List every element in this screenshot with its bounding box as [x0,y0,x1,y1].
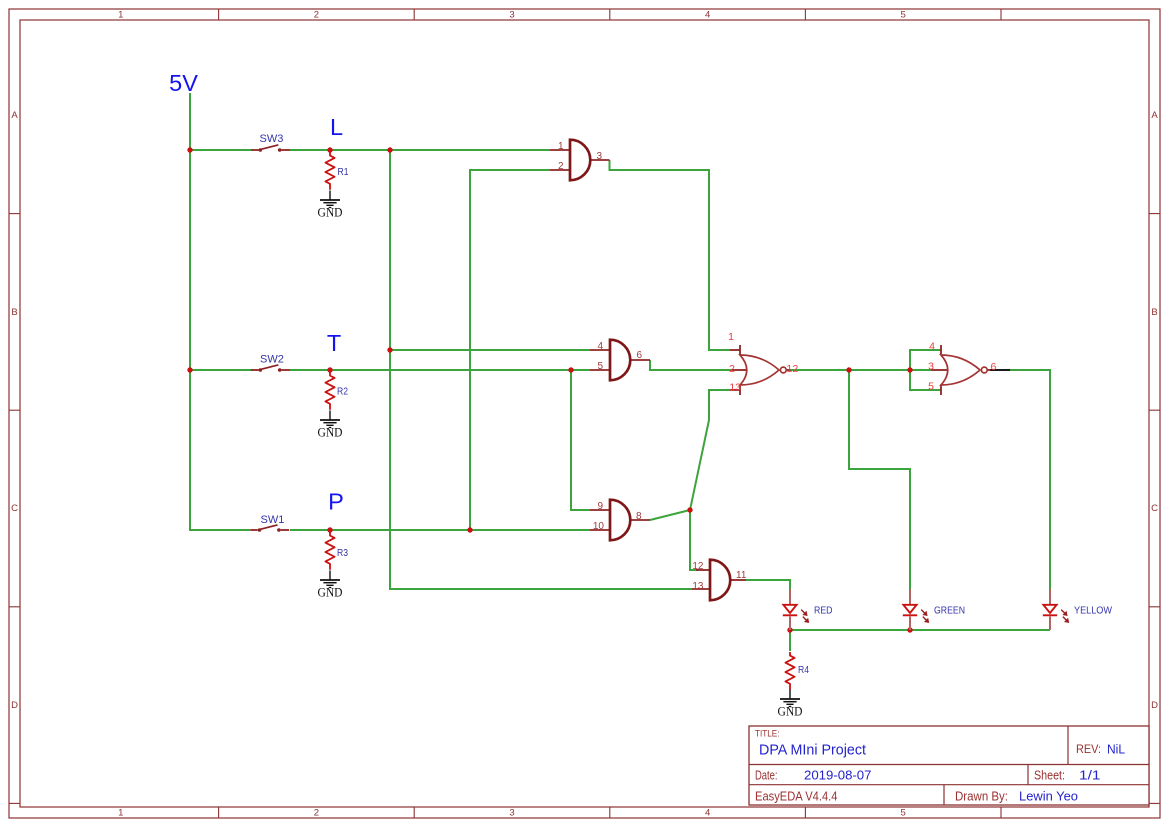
svg-text:12: 12 [787,363,799,375]
svg-text:5V: 5V [169,70,198,96]
svg-text:4: 4 [597,341,603,352]
svg-text:SW2: SW2 [260,354,284,366]
svg-text:Sheet:: Sheet: [1034,769,1065,783]
svg-text:3: 3 [509,10,514,21]
svg-text:10: 10 [593,521,605,532]
svg-text:Drawn By:: Drawn By: [955,790,1008,804]
svg-text:T: T [327,330,341,356]
svg-text:2: 2 [729,363,735,375]
svg-text:2019-08-07: 2019-08-07 [804,768,871,783]
svg-text:1: 1 [728,331,734,343]
svg-text:C: C [11,503,18,514]
svg-text:C: C [1151,503,1158,514]
svg-text:A: A [11,110,18,121]
svg-text:4: 4 [705,10,710,21]
svg-text:TITLE:: TITLE: [755,729,780,739]
svg-text:13: 13 [729,382,741,394]
svg-text:5: 5 [901,808,906,819]
svg-text:DPA MIni Project: DPA MIni Project [759,743,866,759]
svg-text:P: P [328,489,344,515]
svg-text:R3: R3 [337,547,348,559]
svg-text:12: 12 [692,561,704,572]
svg-text:2: 2 [314,10,319,21]
svg-text:REV:: REV: [1076,744,1101,756]
svg-text:Lewin Yeo: Lewin Yeo [1019,789,1078,804]
svg-text:11: 11 [736,570,747,581]
svg-text:3: 3 [509,808,514,819]
svg-text:2: 2 [314,808,319,819]
svg-text:9: 9 [597,501,603,512]
svg-text:6: 6 [637,350,643,361]
svg-text:1: 1 [118,808,123,819]
svg-text:GND: GND [778,705,803,719]
svg-text:GND: GND [318,426,343,440]
svg-text:5: 5 [901,10,906,21]
svg-text:B: B [1151,307,1157,318]
svg-text:5: 5 [928,381,934,393]
svg-text:RED: RED [814,606,833,617]
svg-text:Date:: Date: [755,769,778,783]
svg-text:GREEN: GREEN [934,606,965,617]
svg-text:8: 8 [636,511,642,522]
svg-text:SW3: SW3 [260,133,284,145]
svg-text:B: B [11,307,17,318]
svg-text:1: 1 [118,10,123,21]
svg-text:4: 4 [929,341,935,353]
svg-text:1: 1 [558,141,564,152]
svg-text:D: D [11,700,18,711]
svg-text:6: 6 [991,361,997,373]
svg-text:GND: GND [318,586,343,600]
svg-text:D: D [1151,700,1158,711]
svg-text:R2: R2 [337,386,348,398]
svg-text:5: 5 [597,361,603,372]
svg-text:GND: GND [318,206,343,220]
svg-text:NiL: NiL [1107,742,1125,757]
svg-text:L: L [330,114,343,140]
svg-text:SW1: SW1 [261,514,285,526]
svg-text:13: 13 [692,581,704,592]
svg-text:2: 2 [558,161,564,172]
svg-text:3: 3 [597,151,603,162]
svg-text:YELLOW: YELLOW [1074,606,1113,617]
svg-text:4: 4 [705,808,710,819]
svg-text:A: A [1151,110,1158,121]
svg-text:1/1: 1/1 [1079,768,1101,783]
svg-text:R1: R1 [338,166,349,178]
svg-text:3: 3 [928,361,934,373]
svg-text:EasyEDA V4.4.4: EasyEDA V4.4.4 [755,790,838,804]
svg-text:R4: R4 [798,664,809,676]
